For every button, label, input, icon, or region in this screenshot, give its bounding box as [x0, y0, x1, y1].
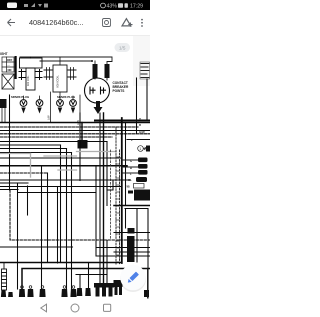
wire row — [18, 192, 96, 194]
wire vertical — [17, 183, 19, 289]
terminal T0b — [8, 292, 13, 297]
wire step — [100, 180, 113, 190]
wire vertical — [9, 95, 11, 190]
bus labels right — [131, 117, 145, 142]
wire thick row — [0, 165, 127, 167]
battery teeth — [115, 287, 118, 295]
toolbar page icon — [103, 19, 111, 27]
condenser C1 — [93, 64, 98, 78]
svg-text:SPARK PLUG: SPARK PLUG — [11, 95, 29, 99]
terminal T3 — [39, 286, 45, 297]
wire bus main — [0, 122, 150, 124]
svg-text:G/W: G/W — [139, 130, 145, 134]
connector block G+ — [138, 158, 148, 163]
wire row — [0, 172, 47, 174]
contact breaker arrow — [94, 101, 103, 114]
resistor element left — [2, 263, 7, 291]
connector comb — [94, 283, 114, 297]
svg-text:1: 1 — [139, 147, 141, 151]
wire row — [114, 232, 150, 234]
contact breaker assembly — [85, 78, 110, 103]
wire grey mid — [44, 155, 77, 157]
legend side bar — [15, 56, 17, 79]
terminal T6 — [77, 288, 83, 296]
svg-text:OFF: OFF — [7, 58, 13, 62]
nav recents square — [104, 304, 111, 311]
svg-text:B: B — [130, 166, 132, 170]
rectifier bar — [127, 236, 135, 262]
wire to B — [122, 166, 138, 168]
wire top bus — [20, 57, 112, 64]
wire row — [0, 148, 67, 150]
svg-text:Y/B: Y/B — [125, 185, 130, 189]
pointer arrow — [144, 147, 147, 149]
terminal T1 — [19, 286, 25, 297]
ignition coil 1 — [19, 57, 42, 90]
nav home circle — [71, 304, 79, 312]
wire vertical — [136, 78, 138, 133]
toolbar — [0, 10, 150, 36]
svg-text:IGHT: IGHT — [0, 52, 8, 56]
svg-text:G: G — [130, 159, 132, 163]
svg-text:OL: OL — [128, 178, 132, 182]
toolbar overflow menu — [141, 19, 143, 27]
wire A/W vertical — [79, 95, 81, 113]
wire row — [0, 246, 73, 248]
wire row — [0, 186, 121, 188]
junction dot — [91, 60, 93, 62]
wire vertical — [125, 123, 127, 206]
fab pencil icon — [126, 272, 139, 285]
wire row — [76, 274, 107, 276]
legend crossed box — [2, 74, 14, 89]
wire to L — [122, 172, 138, 174]
middle horizontal wires — [0, 180, 150, 298]
wire bus O — [95, 120, 150, 122]
left edge wires — [2, 108, 5, 122]
stub to large block — [128, 191, 133, 194]
wire grey horizontal — [0, 153, 31, 155]
left edge connector block — [0, 99, 7, 108]
wire row — [96, 247, 150, 249]
fab shadow — [120, 266, 146, 292]
svg-text:POINTS: POINTS — [113, 89, 125, 93]
wire row — [0, 182, 28, 184]
svg-text:IGN COIL: IGN COIL — [56, 75, 60, 88]
component black box top middle — [81, 123, 83, 141]
wire vertical — [103, 113, 105, 284]
connector block L — [138, 170, 148, 175]
status bar battery circle — [101, 3, 106, 8]
wire right edge — [147, 269, 149, 299]
condenser stems — [95, 61, 107, 80]
rectifier blob — [128, 228, 135, 234]
wire vertical — [57, 187, 59, 264]
svg-text:L: L — [131, 138, 133, 142]
wire L/W vertical — [50, 92, 52, 122]
wire vertical dashed — [10, 190, 150, 240]
wire L — [127, 139, 150, 141]
wire row — [114, 251, 150, 253]
terminal T0 — [1, 290, 6, 297]
page background — [0, 36, 150, 317]
wire vertical — [79, 113, 81, 181]
box bottom right — [125, 209, 148, 299]
plug leads — [24, 92, 74, 100]
svg-text:L/W: L/W — [47, 115, 51, 120]
svg-text:1/5: 1/5 — [119, 46, 126, 51]
fab button — [120, 265, 146, 291]
spark plug 1 — [20, 100, 27, 107]
wire vertical — [79, 275, 81, 289]
connector block large — [134, 190, 150, 201]
wire vertical — [99, 113, 101, 284]
wire row — [0, 189, 18, 191]
battery block — [114, 280, 123, 287]
terminal T5 — [70, 286, 76, 297]
toolbar back arrow — [8, 19, 16, 26]
spark plug 3 — [57, 100, 64, 107]
page indicator pill 1/5 — [115, 43, 131, 52]
wire row — [0, 152, 72, 154]
headlight switch legend table — [2, 57, 14, 72]
wire to G+ — [122, 159, 138, 161]
wire ladder dashed pair — [116, 128, 120, 265]
spark plug 2 — [36, 100, 43, 107]
wire vertical — [106, 142, 108, 285]
svg-text:IGN COIL: IGN COIL — [27, 75, 30, 86]
wire vertical — [27, 186, 29, 215]
ignition coil 2 — [44, 57, 76, 92]
wire vertical — [88, 263, 90, 289]
status bar — [0, 0, 150, 10]
contact breaker points label — [113, 81, 129, 93]
wire G/W dashed — [0, 133, 150, 135]
svg-text:R: R — [139, 123, 141, 127]
connector block B — [138, 164, 148, 169]
wire row — [114, 205, 150, 207]
wire vertical — [41, 166, 43, 289]
junction dot — [135, 119, 137, 121]
ladder rungs — [116, 157, 120, 262]
wire grey low — [58, 169, 77, 171]
svg-text:...: ... — [8, 64, 10, 67]
pointer target block — [146, 146, 150, 152]
wire vertical right — [146, 79, 148, 121]
terminal T7 — [85, 288, 91, 296]
wire row thick — [0, 262, 122, 264]
wire R — [0, 126, 138, 128]
condenser C2 — [105, 64, 110, 78]
wire row — [0, 179, 130, 181]
wire row — [0, 144, 61, 146]
wire grey vertical — [30, 154, 32, 178]
svg-text:ON: ON — [8, 68, 12, 72]
main harness bus — [0, 121, 150, 174]
wire vertical — [60, 145, 62, 263]
terminal T4 — [61, 286, 67, 297]
status bar battery icon — [118, 3, 123, 8]
wire row — [0, 141, 107, 143]
vertical wires middle — [10, 78, 151, 289]
status bar small icons — [24, 3, 48, 8]
wire dashed short — [0, 136, 112, 138]
wire dashed vertical mid — [110, 150, 112, 240]
spark plug 4 — [70, 100, 77, 107]
nav back triangle — [41, 304, 47, 312]
wire row — [0, 157, 121, 159]
status bar notification icon — [7, 3, 17, 9]
connector block OL — [136, 177, 147, 182]
terminal T2 — [27, 286, 33, 297]
wire vertical — [47, 173, 49, 263]
wire vertical — [71, 153, 73, 290]
terminal right small — [144, 290, 149, 297]
right margin note block — [141, 64, 149, 78]
junction dot — [121, 133, 123, 135]
circled 1 pointer — [138, 146, 144, 152]
wire grey right — [77, 151, 117, 153]
wire corner — [22, 269, 150, 290]
wire solid — [0, 130, 150, 132]
wire vertical right bus — [121, 118, 123, 263]
wire vertical — [96, 166, 150, 256]
toolbar title — [29, 18, 83, 27]
toolbar add-to-drive icon — [122, 19, 133, 27]
svg-text:L: L — [130, 172, 132, 176]
connector block Y/B outline — [134, 184, 145, 189]
